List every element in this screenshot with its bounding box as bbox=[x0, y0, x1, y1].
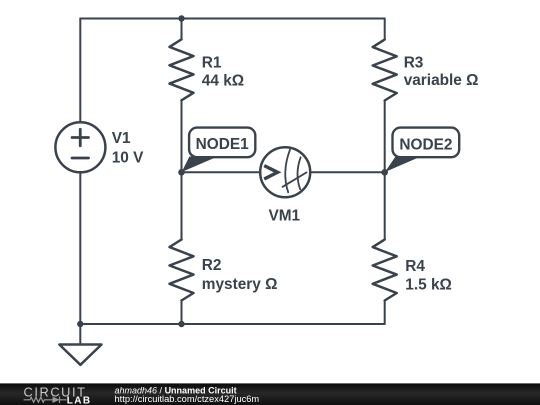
resistor R1 lead top bbox=[181, 19, 183, 40]
resistor R4 zigzag bbox=[373, 240, 397, 301]
svg-text:LAB: LAB bbox=[67, 395, 92, 405]
svg-text:R4: R4 bbox=[405, 258, 425, 275]
svg-text:10 V: 10 V bbox=[112, 150, 144, 167]
svg-text:http://circuitlab.com/ctzex427: http://circuitlab.com/ctzex427juc6m bbox=[115, 394, 260, 404]
resistor R3 lead top bbox=[384, 19, 386, 40]
wire left vertical lower bbox=[79, 173, 81, 325]
junction dot bottom left (ground) bbox=[77, 321, 83, 327]
wire left vertical upper bbox=[79, 19, 81, 123]
resistor R2 lead top / wire bbox=[181, 172, 183, 239]
junction dot top bbox=[178, 15, 184, 21]
V1 minus sign bbox=[72, 157, 89, 160]
VM1 gauge arc right bbox=[297, 157, 300, 189]
svg-text:R1: R1 bbox=[202, 54, 222, 71]
node A dot (NODE1 junction) bbox=[178, 169, 185, 176]
svg-text:V1: V1 bbox=[112, 130, 131, 147]
VM1 needle bbox=[283, 172, 307, 186]
resistor R4 lead bottom bbox=[384, 301, 386, 325]
node B dot (NODE2 junction) bbox=[381, 169, 388, 176]
resistor R4 lead top / wire bbox=[384, 172, 386, 239]
NODE2 callout pointer bbox=[385, 157, 421, 173]
svg-text:VM1: VM1 bbox=[268, 208, 300, 225]
VM1 arrow glyph bbox=[264, 166, 277, 179]
NODE2 callout box bbox=[393, 128, 460, 158]
junction dot bottom middle bbox=[178, 321, 184, 327]
resistor R1 lead bottom / wire bbox=[181, 100, 183, 172]
VM1 gauge arc left bbox=[285, 150, 290, 193]
svg-text:44 kΩ: 44 kΩ bbox=[202, 73, 244, 90]
ground stub wire bbox=[79, 324, 81, 345]
footer logo resistor-diode squiggle bbox=[24, 397, 67, 403]
wire bottom horizontal bbox=[80, 323, 384, 325]
resistor R3 lead bottom / wire bbox=[384, 101, 386, 173]
wire middle right (VM1 to node2) bbox=[311, 171, 384, 173]
footer logo diode triangle bbox=[53, 397, 60, 403]
svg-text:R3: R3 bbox=[404, 54, 424, 71]
resistor R2 zigzag bbox=[170, 240, 194, 301]
svg-text:variable Ω: variable Ω bbox=[404, 72, 479, 89]
NODE1 callout box bbox=[189, 128, 255, 158]
NODE1 callout pointer bbox=[182, 157, 218, 173]
wire top horizontal bbox=[80, 18, 384, 20]
footer bar bbox=[0, 383, 540, 405]
voltmeter VM1 circle bbox=[260, 147, 310, 197]
ground symbol triangle bbox=[59, 345, 101, 365]
svg-text:NODE2: NODE2 bbox=[399, 136, 452, 153]
V1 plus sign bbox=[72, 129, 89, 145]
resistor R1 zigzag bbox=[170, 39, 194, 100]
svg-text:R2: R2 bbox=[202, 257, 222, 274]
resistor R2 lead bottom bbox=[181, 301, 183, 325]
svg-text:NODE1: NODE1 bbox=[196, 136, 249, 153]
voltage source V1 circle bbox=[55, 122, 105, 172]
svg-text:mystery Ω: mystery Ω bbox=[202, 276, 278, 293]
wire middle left (node1 to VM1) bbox=[182, 171, 260, 173]
resistor R3 zigzag bbox=[373, 40, 397, 101]
svg-text:1.5 kΩ: 1.5 kΩ bbox=[405, 277, 452, 294]
